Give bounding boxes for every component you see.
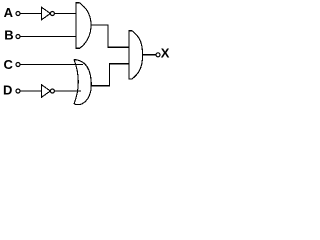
svg-text:X: X	[161, 46, 170, 61]
wire B to AND gate U2	[20, 36, 76, 38]
terminal D	[16, 89, 20, 93]
OR gate U3 bottom edge	[74, 86, 91, 105]
svg-text:C: C	[4, 57, 14, 72]
wire C to OR gate U3	[20, 64, 83, 66]
wire AND U2 output to gate U5	[91, 25, 130, 47]
inverter U4 bubble	[50, 89, 54, 93]
wire A to inverter U1	[20, 13, 42, 15]
inverter U1 triangle	[42, 7, 51, 19]
svg-text:A: A	[4, 5, 14, 20]
inverter U4 triangle	[42, 85, 51, 97]
wire D to inverter U4	[20, 90, 42, 92]
OR gate U3 back arc	[74, 60, 78, 105]
AND gate U2	[76, 3, 91, 48]
inverter U1 bubble	[50, 12, 54, 16]
svg-text:D: D	[3, 83, 12, 98]
AND gate U5 (output gate)	[129, 31, 143, 79]
wire D' to OR gate U3	[54, 90, 81, 92]
wire U5 output to terminal X	[143, 54, 156, 56]
wire A' to AND gate U2	[54, 13, 76, 15]
terminal X	[156, 53, 160, 57]
svg-text:B: B	[4, 28, 13, 43]
terminal A	[16, 12, 20, 16]
terminal C	[16, 63, 20, 67]
OR gate U3 top edge	[74, 60, 91, 86]
terminal B	[16, 35, 20, 39]
wire OR U3 output to gate U5	[91, 64, 129, 86]
